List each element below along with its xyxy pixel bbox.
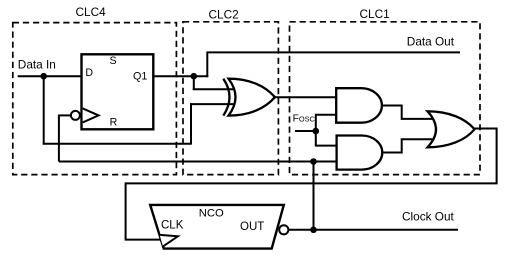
svg-text:CLC4: CLC4: [76, 5, 107, 19]
AND gate upper: [336, 88, 382, 123]
wire: riser to Data Out: [206, 52, 208, 77]
wire: into XOR upper input: [193, 88, 234, 90]
NCO clock edge triangle: [160, 235, 178, 247]
svg-text:CLC2: CLC2: [209, 7, 239, 21]
wire: Fosc stub: [295, 130, 316, 132]
wire: OR output feedback loop to NCO CLK: [126, 129, 497, 240]
svg-text:Data In: Data In: [18, 57, 56, 71]
svg-text:OUT: OUT: [240, 221, 264, 233]
flip-flop clock inversion bubble: [71, 111, 80, 120]
svg-text:CLK: CLK: [161, 220, 184, 232]
XOR gate input arc: [223, 79, 229, 116]
wire: clock feed down: [58, 115, 60, 162]
node: Q1 junction: [191, 73, 198, 80]
node: Data In junction: [40, 73, 47, 80]
wire: Q1 output: [153, 75, 208, 77]
wire: NCO output riser to clock line: [313, 162, 315, 230]
wire: NCO output to Clock Out: [288, 229, 458, 231]
svg-text:S: S: [109, 55, 116, 67]
node: NCO output junction: [310, 227, 317, 234]
svg-text:Data Out: Data Out: [407, 34, 455, 48]
svg-text:NCO: NCO: [199, 207, 224, 219]
wire: Fosc to upper AND lower input: [315, 114, 338, 116]
svg-text:CLC1: CLC1: [360, 7, 390, 21]
wire: XOR output to upper AND input: [275, 96, 338, 98]
wire: bottom run to XOR lower input riser: [43, 143, 191, 145]
D flip-flop U1 body: [82, 54, 154, 129]
XOR gate body: [229, 79, 275, 116]
wire: Q1 junction down to XOR upper input: [193, 76, 195, 90]
OR gate: [428, 111, 475, 147]
wire: riser up to XOR lower input: [190, 103, 192, 144]
wire: clock bubble to left: [59, 114, 71, 116]
CLC1 dashed block boundary: [290, 22, 481, 175]
node: Fosc junction: [313, 128, 320, 135]
wire: upper AND output: [382, 106, 436, 119]
NCO block trapezoid: [150, 205, 284, 249]
wire: into XOR lower input: [190, 103, 234, 105]
wire: lower AND output: [382, 139, 436, 152]
svg-text:D: D: [85, 67, 93, 79]
svg-text:Q1: Q1: [133, 70, 147, 82]
CLC4 dashed block boundary: [13, 23, 177, 175]
svg-text:FOSC: FOSC: [293, 114, 316, 125]
AND gate lower: [337, 136, 383, 170]
wire: clock feed bottom run to lower AND input: [59, 161, 338, 163]
node: clock line junction: [310, 158, 317, 165]
flip-flop clock edge triangle: [83, 108, 99, 122]
wire: Data In junction down: [43, 76, 45, 144]
svg-text:R: R: [110, 117, 118, 129]
wire: Data In to D input: [18, 75, 82, 77]
wire: Data Out run: [206, 51, 460, 53]
NCO output inversion bubble: [279, 225, 288, 234]
wire: Fosc to lower AND upper input: [315, 145, 338, 147]
svg-text:Clock Out: Clock Out: [402, 209, 455, 223]
wire: Fosc riser: [315, 115, 317, 146]
CLC2 dashed block boundary: [183, 22, 278, 175]
